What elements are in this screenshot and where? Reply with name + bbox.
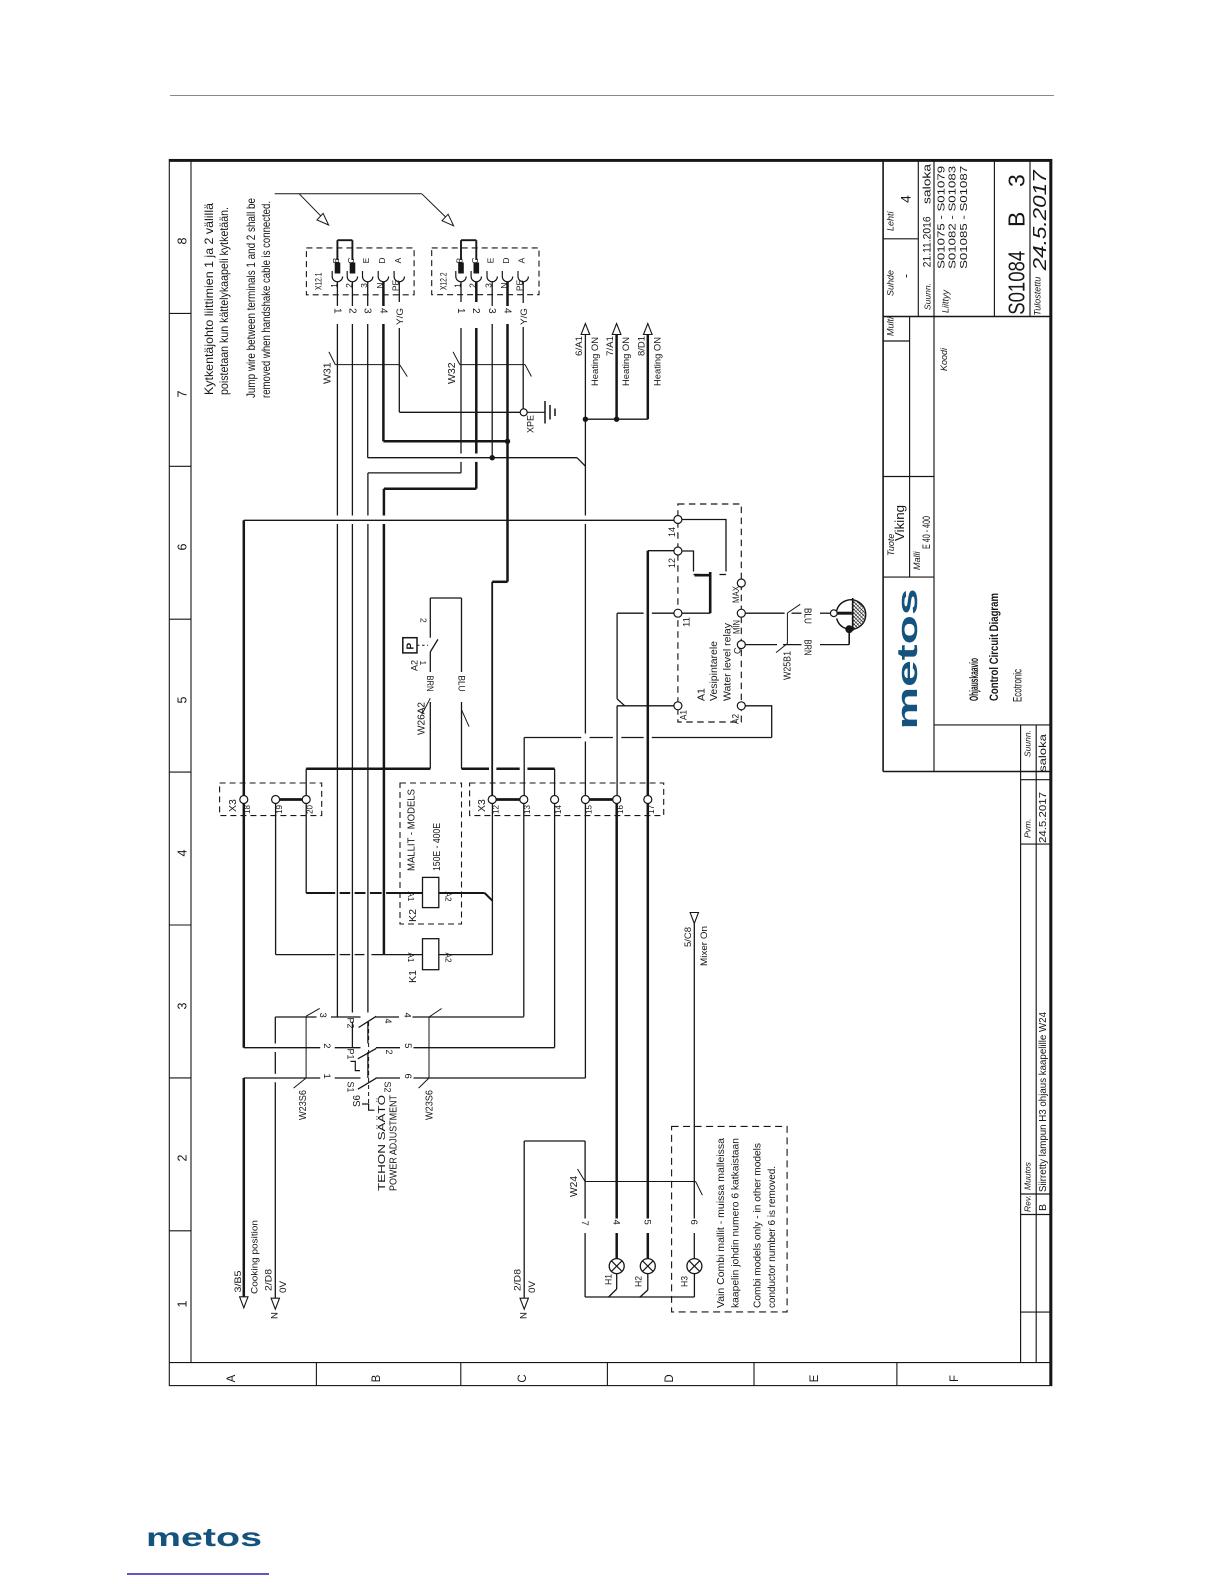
svg-text:B: B: [331, 257, 341, 263]
svg-text:TEHON SÄÄTÖ: TEHON SÄÄTÖ: [376, 1095, 388, 1191]
svg-text:3: 3: [362, 308, 373, 314]
lamp H2: [640, 1259, 655, 1274]
svg-text:Y/G: Y/G: [519, 308, 530, 325]
svg-text:Heating ON: Heating ON: [590, 337, 601, 386]
svg-text:1: 1: [176, 1300, 190, 1307]
svg-text:conductor number 6 is removed.: conductor number 6 is removed.: [766, 1166, 778, 1308]
svg-text:X12.2: X12.2: [439, 272, 449, 290]
wire N drop to coils: [491, 804, 493, 955]
wire X12.2 pin3 conductor 3: [491, 282, 493, 306]
svg-text:Ecotronic: Ecotronic: [1011, 669, 1025, 702]
wire mixer conductor 6: [693, 924, 695, 1219]
terminal X3:15: [581, 796, 589, 804]
svg-text:E 40 - 400: E 40 - 400: [921, 516, 933, 549]
wire lamp top bus: [524, 1140, 585, 1142]
svg-text:C: C: [517, 1374, 529, 1382]
svg-text:N: N: [270, 1312, 281, 1319]
svg-text:A: A: [393, 257, 403, 263]
svg-text:21.11.2016: 21.11.2016: [922, 216, 934, 267]
svg-text:2: 2: [176, 1154, 190, 1161]
wire MIN to float: [745, 612, 784, 614]
svg-text:Kytkentäjohto liittimien 1 ja: Kytkentäjohto liittimien 1 ja 2 välillä: [202, 203, 216, 395]
svg-text:A1: A1: [696, 688, 708, 701]
svg-text:Tulostettu: Tulostettu: [1033, 277, 1043, 316]
svg-text:Malli: Malli: [912, 550, 922, 570]
signal arrow 6/A1 Heating ON: [584, 335, 586, 420]
relay terminal A2: [737, 702, 745, 710]
terminal X3:18: [240, 796, 248, 804]
terminal X3:16: [613, 796, 621, 804]
svg-text:6: 6: [176, 543, 190, 550]
svg-text:4: 4: [501, 308, 512, 314]
models box MALLIT - MODELS outline: [400, 783, 462, 924]
cable marker W26A2 slash 1: [422, 698, 431, 714]
svg-text:7/A1: 7/A1: [605, 336, 616, 356]
svg-text:5: 5: [176, 696, 190, 703]
svg-text:MIN: MIN: [732, 620, 742, 634]
note box Combi outline: [672, 1126, 788, 1312]
svg-text:7: 7: [579, 1221, 590, 1226]
svg-text:BRN: BRN: [424, 676, 435, 692]
svg-text:7: 7: [176, 390, 190, 397]
wire relay A1 out to X3:16: [617, 705, 674, 707]
svg-text:Jump wire between terminals 1: Jump wire between terminals 1 and 2 shal…: [244, 198, 258, 398]
relay terminal C: [737, 641, 745, 649]
wire 0V to lamps: [523, 1141, 525, 1298]
footer underline: [127, 1573, 269, 1575]
svg-text:14: 14: [667, 527, 677, 537]
svg-text:S2: S2: [383, 1082, 393, 1093]
svg-text:metos: metos: [892, 589, 924, 730]
svg-text:X3: X3: [476, 799, 488, 812]
svg-text:H1: H1: [604, 1274, 615, 1285]
connector X12.2 jumper pins: [459, 263, 464, 273]
terminal X3:20: [302, 796, 310, 804]
wire H2 return: [647, 1274, 649, 1290]
wire lamp conductor 4 (X3:16 down): [615, 804, 618, 1219]
svg-text:5: 5: [642, 1220, 653, 1225]
wire lamp conductor 5 (X3:17 down): [647, 804, 650, 1219]
svg-text:11: 11: [682, 617, 692, 627]
relay terminal A1: [674, 702, 682, 710]
svg-text:3: 3: [486, 308, 497, 314]
title block border lines: [882, 161, 884, 772]
svg-text:4: 4: [176, 849, 190, 856]
note leader line: [275, 193, 422, 195]
svg-text:A2: A2: [444, 953, 454, 963]
svg-text:X12.1: X12.1: [314, 272, 324, 290]
wire X12.1 N conductor 4: [382, 282, 385, 306]
wire X12.1 pin1 conductor 1: [336, 282, 338, 306]
svg-text:Liittyy: Liittyy: [941, 289, 951, 313]
svg-text:H3: H3: [680, 1276, 691, 1287]
wire X12.1 pin3 conductor 3: [367, 282, 369, 306]
svg-text:P2: P2: [346, 1018, 356, 1029]
wire circuit 2-5 (P1): [244, 1047, 320, 1049]
svg-text:D: D: [377, 257, 387, 263]
svg-text:4: 4: [377, 308, 388, 314]
svg-text:Rev.: Rev.: [1022, 1195, 1032, 1212]
note arrow to X12.2: [422, 194, 446, 218]
svg-text:2/D8: 2/D8: [264, 1269, 275, 1291]
svg-text:Heating ON: Heating ON: [652, 337, 663, 386]
svg-text:BLU: BLU: [802, 608, 814, 624]
svg-text:2: 2: [321, 1043, 332, 1048]
svg-text:3: 3: [317, 1013, 328, 1018]
wire X3:18 down to P1: [243, 804, 246, 1048]
svg-text:5: 5: [402, 1043, 413, 1048]
junction: [505, 439, 510, 444]
wire X12.2 pin1 crossover: [368, 472, 461, 474]
svg-text:Suhde: Suhde: [886, 270, 896, 296]
svg-text:Control Circuit Diagram: Control Circuit Diagram: [987, 593, 1001, 701]
connector X12.1 jumper pins: [335, 263, 340, 273]
wire H1 return: [616, 1274, 618, 1289]
wire lamp conductor 7: [584, 1141, 586, 1219]
svg-text:Pvm.: Pvm.: [1022, 819, 1032, 838]
wire circuit 1-6 (S1): [244, 1077, 320, 1079]
svg-text:W24: W24: [568, 1176, 580, 1197]
wire 0V bridge: [274, 1017, 276, 1044]
svg-text:F: F: [949, 1375, 961, 1382]
frame column strip line (bottom): [169, 1362, 1052, 1364]
terminal X3:14: [551, 796, 559, 804]
terminal block X3 right outline: [470, 783, 664, 816]
svg-text:saloka: saloka: [922, 163, 934, 204]
signal arrow 3/B5 Cooking position: [240, 1297, 248, 1308]
svg-text:W32: W32: [446, 362, 458, 384]
pressure switch A2 contact: [430, 639, 438, 652]
svg-text:D: D: [501, 257, 511, 263]
svg-text:4: 4: [611, 1220, 622, 1225]
svg-text:2: 2: [384, 1050, 394, 1055]
wire X12.1 pin2 conductor 2: [351, 282, 353, 306]
contact S1 blade: [358, 1078, 376, 1089]
wire jog to heating feeder: [577, 458, 585, 467]
relay contact from 12: [682, 551, 694, 572]
svg-text:2: 2: [346, 308, 357, 314]
wire X12.2 PE Y/G: [522, 282, 524, 303]
svg-text:3: 3: [1004, 174, 1030, 187]
relay terminal MAX: [737, 579, 745, 587]
cable bracket W23S6 left: [305, 1016, 307, 1078]
connector X12.2 sockets: [455, 271, 457, 277]
terminal X3:12: [488, 796, 496, 804]
bridge bar X3 15-16: [589, 798, 612, 801]
svg-text:Multi: Multi: [885, 316, 895, 336]
svg-text:P: P: [406, 643, 417, 650]
wire relay 12 line: [648, 550, 675, 552]
wire relay 11 out: [617, 612, 644, 614]
svg-text:S01084: S01084: [1004, 251, 1030, 315]
connector X12.1 outline: [306, 248, 414, 295]
svg-text:S6: S6: [351, 1095, 363, 1107]
svg-text:Vain Combi mallit - muissa mal: Vain Combi mallit - muissa malleissa: [715, 1138, 727, 1308]
svg-text:W26A2: W26A2: [416, 702, 428, 735]
svg-text:C: C: [733, 647, 743, 654]
wire X3:20 down to K2: [305, 804, 307, 894]
wire N down to X3:12: [491, 582, 493, 796]
wire pin3 bus: [368, 457, 577, 459]
svg-text:A2: A2: [731, 714, 741, 724]
wire X3:18 riser: [243, 520, 246, 796]
svg-text:3: 3: [176, 1002, 190, 1009]
svg-text:Cooking position: Cooking position: [250, 1220, 261, 1294]
cable marker W25B1: [787, 604, 800, 613]
svg-text:1: 1: [321, 1074, 332, 1079]
wire riser to X3:15 from circuit 6: [584, 804, 586, 1079]
wire relay 11 to blade: [682, 612, 710, 614]
wire BRN riser (A2): [429, 652, 431, 672]
wire PE collector: [399, 411, 520, 413]
wire K1 A1: [276, 954, 336, 956]
svg-text:POWER ADJUSTMENT: POWER ADJUSTMENT: [389, 1095, 400, 1191]
relay terminal MIN: [737, 609, 745, 617]
svg-text:Combi models only - in other m: Combi models only - in other models: [752, 1143, 764, 1308]
S6 actuator bottom: [362, 1104, 375, 1110]
svg-text:W23S6: W23S6: [297, 1090, 309, 1120]
wire heating bus: [585, 418, 647, 420]
svg-text:Siirretty lampun H3 ohjaus kaa: Siirretty lampun H3 ohjaus kaapelille W2…: [1037, 1012, 1049, 1192]
svg-text:W25B1: W25B1: [782, 651, 794, 680]
wire circuit 3-4 (P2): [275, 1016, 316, 1018]
wire X3:19 down: [275, 804, 277, 955]
svg-text:E: E: [809, 1374, 821, 1382]
svg-text:Suunn.: Suunn.: [1022, 730, 1032, 757]
S6 actuator mid: [351, 1061, 361, 1070]
svg-text:6/A1: 6/A1: [574, 336, 585, 356]
svg-text:B: B: [371, 1374, 383, 1382]
signal arrow 2/D8 0V N left: [271, 1298, 279, 1309]
wire X12.2 pin1 conductor 1: [460, 282, 462, 302]
float level sensor B1: [830, 610, 837, 617]
wire X12.2 pin2 conductor 2: [475, 282, 478, 302]
contactor coil K2: [423, 877, 439, 907]
svg-text:B: B: [455, 257, 465, 263]
signal arrow 5/C8 Mixer On: [690, 913, 698, 924]
svg-text:1: 1: [418, 661, 428, 666]
relay terminal 11: [674, 609, 682, 617]
frame outer border: [169, 160, 1052, 1386]
contact P2 blade: [359, 1016, 377, 1027]
relay contact blade: [695, 574, 712, 577]
svg-text:MAX: MAX: [731, 586, 741, 603]
svg-text:metos: metos: [146, 1522, 262, 1552]
svg-text:Heating ON: Heating ON: [621, 337, 632, 386]
svg-text:2/D8: 2/D8: [512, 1269, 523, 1291]
wire X12.2 pin2 crossover: [384, 487, 476, 490]
terminal XPE: [520, 409, 527, 416]
svg-text:BLU: BLU: [455, 676, 466, 692]
wire lamp bottom bus: [585, 1296, 694, 1298]
svg-text:2: 2: [418, 618, 428, 623]
svg-text:4: 4: [383, 1019, 393, 1024]
lamp H3: [687, 1259, 702, 1274]
cable marker W24: [578, 1169, 586, 1182]
junction pin3: [490, 455, 495, 460]
wire K1 A2: [439, 954, 493, 956]
svg-text:Mixer On: Mixer On: [699, 926, 710, 966]
relay contact from 14: [682, 520, 726, 572]
svg-text:-: -: [899, 274, 913, 278]
svg-text:poistetaan kun kättelykaapeli: poistetaan kun kättelykaapeli kytketään.: [217, 207, 231, 395]
svg-text:Muutos: Muutos: [1022, 1161, 1032, 1190]
svg-text:B: B: [1004, 212, 1030, 227]
frame inner thick right edge: [1049, 160, 1052, 1386]
pressure switch link: [417, 644, 428, 646]
connector X12.1 sockets: [331, 271, 333, 277]
svg-text:A1: A1: [406, 892, 416, 902]
svg-text:A1: A1: [679, 710, 689, 720]
svg-text:150E - 400E: 150E - 400E: [432, 823, 443, 871]
contactor coil K1: [423, 939, 439, 970]
svg-text:24.5.2017: 24.5.2017: [1037, 792, 1049, 843]
svg-text:E: E: [486, 257, 496, 263]
svg-text:Lehti: Lehti: [886, 210, 896, 231]
svg-text:N: N: [519, 1312, 530, 1319]
wire BLU drop (A2): [461, 598, 463, 672]
svg-text:S1: S1: [346, 1082, 356, 1093]
svg-text:saloka: saloka: [1037, 734, 1049, 772]
svg-text:5/C8: 5/C8: [683, 927, 694, 947]
svg-text:K2: K2: [407, 909, 419, 922]
svg-text:0V: 0V: [278, 1280, 289, 1293]
cable marker W23S6 left: [306, 1008, 320, 1016]
svg-text:B: B: [1037, 1204, 1049, 1211]
svg-text:Viking: Viking: [893, 505, 907, 541]
junction heating 1: [583, 417, 588, 422]
signal arrow 8/D1 Heating ON: [647, 335, 650, 420]
svg-text:24.5.2017: 24.5.2017: [1029, 170, 1050, 272]
terminal X3:13: [520, 796, 528, 804]
wire N join X12.1 to X12.2: [383, 440, 507, 443]
relay terminal 12: [674, 547, 682, 555]
svg-text:2: 2: [470, 308, 481, 314]
bridge bar X3 12-13: [496, 798, 520, 801]
svg-text:6: 6: [688, 1220, 699, 1225]
bridge bar X3 19-20: [280, 798, 303, 801]
lamp H1: [609, 1259, 624, 1274]
wire relay 14 line: [244, 519, 675, 521]
wire A2 to X3:13: [524, 737, 581, 739]
svg-text:A: A: [517, 257, 527, 263]
svg-text:Vesipintarele: Vesipintarele: [708, 641, 720, 701]
svg-text:P1: P1: [346, 1049, 356, 1060]
wire cooking position drop: [243, 1078, 246, 1298]
terminal block X3 left outline: [220, 783, 322, 816]
svg-text:8/D1: 8/D1: [636, 336, 647, 356]
svg-text:E: E: [361, 257, 371, 263]
jump wire between X12.2 terminals 1-2: [460, 240, 462, 260]
svg-text:W23S6: W23S6: [424, 1090, 436, 1120]
svg-text:W31: W31: [322, 362, 334, 384]
svg-text:kaapelin johdin numero 6 katka: kaapelin johdin numero 6 katkaistaan: [730, 1138, 742, 1308]
wire N jog: [492, 581, 507, 584]
relay terminal 14: [674, 516, 682, 524]
svg-text:MALLIT - MODELS: MALLIT - MODELS: [407, 789, 418, 871]
frame row ticks: [169, 312, 191, 314]
svg-text:6: 6: [402, 1074, 413, 1079]
wire K2 A1: [306, 892, 335, 894]
cable marker W32: [453, 352, 460, 365]
wire X12.1 PE Y/G: [398, 282, 400, 302]
terminal X3:19: [272, 796, 280, 804]
frame inner thick top edge: [169, 159, 1052, 162]
page header rule: [170, 95, 1054, 97]
svg-text:1: 1: [455, 308, 466, 314]
wire relay A2 out: [745, 706, 771, 738]
wire bus down to X3:14: [554, 769, 556, 796]
wire heating feeder down to X3:15: [584, 419, 586, 515]
svg-text:H2: H2: [634, 1276, 645, 1287]
terminal X3:17: [644, 796, 652, 804]
svg-text:X3: X3: [227, 799, 239, 812]
svg-text:12: 12: [667, 558, 677, 568]
cable marker W31: [329, 352, 335, 365]
frame row strip line (left): [190, 160, 192, 1363]
svg-text:S01085 - S01087: S01085 - S01087: [958, 166, 970, 269]
switch S6 linkage: [368, 1022, 370, 1104]
frame column ticks: [315, 1363, 317, 1386]
svg-text:0V: 0V: [527, 1280, 538, 1293]
svg-text:A: A: [226, 1374, 238, 1382]
svg-text:4: 4: [402, 1013, 413, 1018]
signal arrow 7/A1 Heating ON: [615, 335, 618, 420]
pressure switch A2 sensor box: [403, 638, 417, 653]
wire riser to X3:13 from circuit 4: [523, 804, 525, 1017]
earth ground symbol: [527, 411, 545, 413]
cable marker W23S6 right: [429, 1009, 442, 1018]
wire K2 A2: [439, 892, 485, 894]
svg-text:Suunn.: Suunn.: [923, 283, 933, 310]
contact P1 blade: [358, 1048, 376, 1058]
junction heating 2: [614, 417, 619, 422]
wire C to float: [745, 644, 777, 646]
svg-text:8: 8: [176, 237, 190, 244]
svg-text:Y/G: Y/G: [395, 308, 406, 325]
note arrow to X12.1: [299, 194, 321, 216]
wire bus from X3:20: [305, 769, 307, 796]
wire H3 return: [693, 1274, 695, 1297]
svg-text:removed when handshake cable i: removed when handshake cable is connecte…: [259, 201, 273, 398]
svg-text:1: 1: [331, 308, 342, 314]
cable marker W26A2 slash 2: [462, 710, 470, 727]
wire riser to X3:14 from circuit 5: [554, 804, 556, 1048]
relay A1 water level relay outline: [678, 504, 741, 722]
wire top U to BLU: [430, 597, 461, 599]
svg-text:BRN: BRN: [802, 640, 814, 656]
signal arrow 2/D8 0V N right: [520, 1298, 528, 1309]
wire 11/A1 merge: [616, 613, 618, 699]
wire X12.2 N conductor 4: [506, 282, 509, 306]
svg-text:4: 4: [898, 195, 914, 203]
connector X12.2 outline: [432, 248, 539, 295]
svg-text:K1: K1: [407, 970, 419, 983]
svg-text:Ohjauskaavio: Ohjauskaavio: [967, 658, 981, 701]
svg-text:XPE: XPE: [526, 415, 537, 433]
svg-text:D: D: [664, 1374, 676, 1382]
svg-text:Koodi: Koodi: [939, 347, 949, 371]
jump wire W between X12.1 terminals 1-2: [336, 240, 338, 260]
svg-text:3/B5: 3/B5: [233, 1271, 244, 1293]
